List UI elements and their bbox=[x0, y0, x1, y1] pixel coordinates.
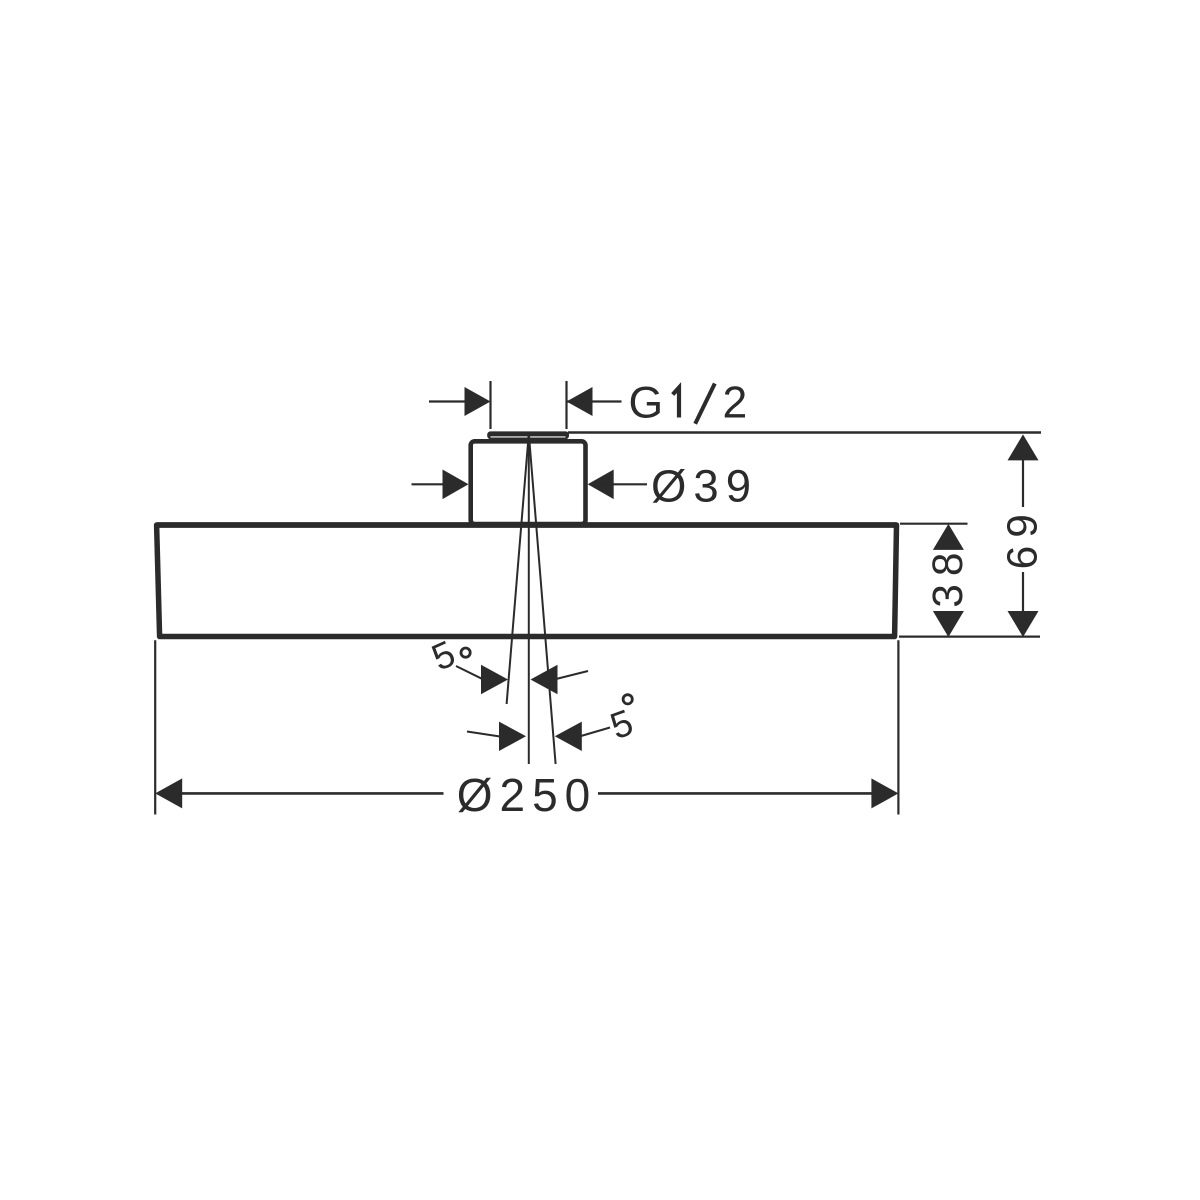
disc top line redraw over connector bbox=[157, 522, 897, 528]
G1/2 left dimension tail bbox=[429, 400, 478, 402]
svg-text:Ø250: Ø250 bbox=[457, 769, 598, 821]
svg-text:38: 38 bbox=[925, 544, 972, 607]
lower 5-degree leader left bbox=[467, 732, 500, 737]
38 top extension line bbox=[900, 523, 968, 525]
svg-text:Ø39: Ø39 bbox=[651, 461, 758, 512]
connector cap (thread collar) bbox=[487, 431, 569, 439]
svg-text:5: 5 bbox=[605, 702, 638, 748]
lower 5-degree ring bbox=[623, 695, 632, 704]
svg-text:2: 2 bbox=[723, 379, 748, 428]
upper 5-degree ring bbox=[461, 648, 470, 657]
250 right arrow bbox=[871, 778, 898, 808]
lower 5-degree leader right bbox=[581, 728, 610, 737]
39 left arrow bbox=[443, 470, 469, 500]
69 dimension line upper segment bbox=[1022, 450, 1024, 507]
250 right extension line bbox=[897, 640, 899, 814]
svg-text:G: G bbox=[629, 379, 664, 428]
G1/2 label: slash bbox=[695, 384, 715, 424]
G1/2 right arrow bbox=[567, 387, 593, 416]
spray left 5-degree line bbox=[507, 434, 529, 705]
38 bottom arrow bbox=[933, 611, 964, 637]
39 right arrow bbox=[588, 470, 614, 500]
upper 5-degree leader left bbox=[456, 666, 483, 679]
G1/2 right dimension tail bbox=[567, 400, 622, 402]
250 dimension line right segment bbox=[598, 792, 872, 795]
250 dimension line left segment bbox=[181, 792, 444, 795]
39 left dimension tail bbox=[412, 483, 456, 485]
spray right 5-degree line bbox=[529, 434, 556, 765]
upper 5-degree leader right bbox=[556, 671, 588, 679]
G1/2 left extension line bbox=[489, 381, 491, 429]
shower head disc body outline bbox=[157, 525, 897, 637]
69 dimension line lower segment bbox=[1022, 572, 1024, 620]
G1/2 label: digit 1 bbox=[673, 388, 679, 418]
39 right dimension tail bbox=[600, 483, 647, 485]
connector cap inner highlight bbox=[491, 436, 566, 437]
upper 5-degree right arrow bbox=[531, 665, 558, 694]
69 top arrow bbox=[1008, 434, 1039, 460]
svg-text:69: 69 bbox=[1000, 506, 1047, 569]
69 bottom arrow bbox=[1008, 611, 1039, 637]
connector body bbox=[471, 441, 586, 524]
lower 5-degree left arrow bbox=[499, 722, 526, 751]
lower 5-degree right arrow bbox=[555, 722, 582, 751]
38 top arrow bbox=[933, 524, 964, 550]
G1/2 right extension line bbox=[565, 381, 567, 429]
G1/2 left arrow bbox=[465, 387, 491, 416]
250 left extension line bbox=[154, 640, 156, 814]
bottom shared extension line for 38 and 69 bbox=[899, 635, 1040, 637]
spray centerline bbox=[528, 434, 530, 765]
250 left arrow bbox=[155, 778, 182, 808]
svg-text:5: 5 bbox=[426, 633, 461, 679]
cap to 69-dim extension line bbox=[568, 431, 1041, 433]
upper 5-degree left arrow bbox=[481, 665, 508, 694]
